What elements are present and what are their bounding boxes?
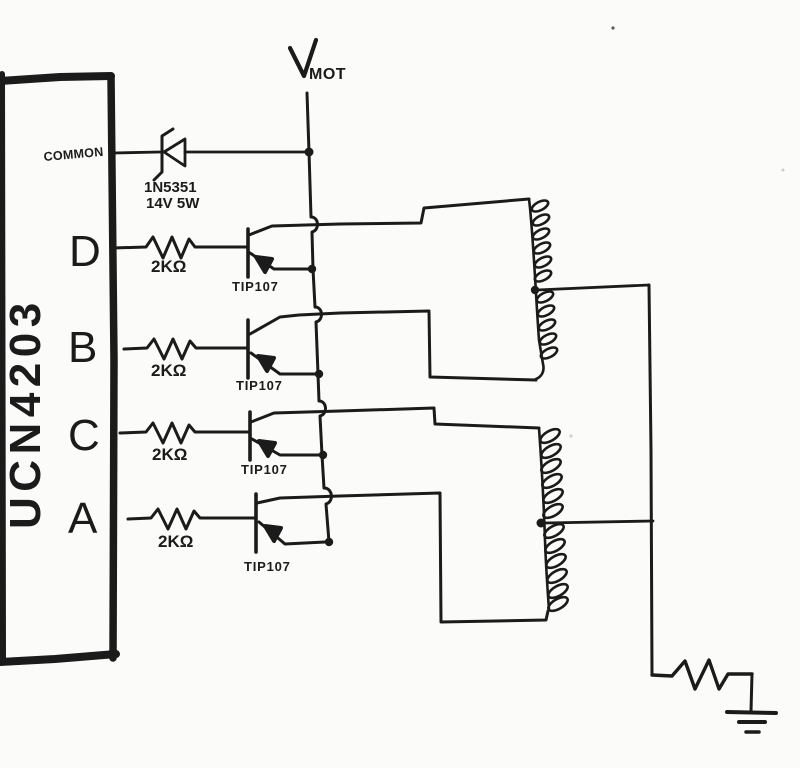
transistor QD TIP107 <box>248 224 340 277</box>
svg-text:TIP107: TIP107 <box>232 279 279 294</box>
inductor L1 loops <box>530 198 559 361</box>
svg-text:D: D <box>69 227 101 276</box>
junction dot emitter QC on rail <box>319 451 327 459</box>
junction dot emitter QB on rail <box>315 370 323 378</box>
transistor QC TIP107 <box>250 411 340 460</box>
transistor QA TIP107 <box>256 494 340 552</box>
svg-text:UCN4203: UCN4203 <box>1 297 50 529</box>
junction dot L2 center tap <box>537 519 546 528</box>
resistor RB 2K and wire from pin B <box>124 339 247 359</box>
wire resistor to ground <box>751 674 752 711</box>
svg-text:2KΩ: 2KΩ <box>158 532 193 551</box>
junction dot emitter QA on rail <box>325 538 333 546</box>
svg-text:C: C <box>68 411 100 460</box>
power label V_MOT <box>290 40 346 83</box>
wire sense line vertical <box>649 285 652 674</box>
wire QC collector to L2 top <box>340 408 539 428</box>
svg-text:1N5351: 1N5351 <box>144 179 197 196</box>
svg-text:2KΩ: 2KΩ <box>151 257 186 276</box>
wire COMMON pin to zener <box>113 152 160 153</box>
svg-text:COMMON: COMMON <box>43 145 104 164</box>
inductor L1 upper motor winding spine <box>529 199 544 379</box>
wire zener to rail <box>185 151 306 154</box>
zener diode D1 1N5351 <box>154 129 185 180</box>
svg-text:14V 5W: 14V 5W <box>146 195 200 212</box>
svg-text:2KΩ: 2KΩ <box>151 361 186 380</box>
wire L2 center tap to sense line <box>545 521 653 523</box>
transistor QB TIP107 <box>248 313 340 378</box>
junction dot emitter QD on rail <box>308 265 316 273</box>
junction dot COMMON/rail <box>305 148 314 157</box>
resistor RC 2K and wire from pin C <box>120 423 249 443</box>
svg-text:TIP107: TIP107 <box>244 559 291 574</box>
inductor L2 lower motor winding spine <box>539 428 549 610</box>
svg-text:B: B <box>68 323 97 372</box>
wire L1 center tap to sense line <box>537 285 649 290</box>
wire QA collector to L2 bottom <box>340 493 548 622</box>
resistor RD 2K and wire from pin D <box>113 237 247 258</box>
svg-text:TIP107: TIP107 <box>241 462 288 477</box>
wire V_MOT rail <box>307 93 331 542</box>
svg-text:MOT: MOT <box>309 66 346 83</box>
svg-text:2KΩ: 2KΩ <box>152 445 187 464</box>
ground symbol <box>727 712 776 732</box>
svg-text:A: A <box>68 494 98 543</box>
IC U1 UCN4203 box <box>0 74 116 662</box>
resistor RA 2K and wire from pin A <box>128 509 255 529</box>
wire QB collector to L1 bottom <box>340 311 536 380</box>
junction dot L1 center tap <box>531 286 539 294</box>
resistor R5 sense <box>652 660 752 689</box>
inductor L2 loops <box>538 426 570 613</box>
svg-text:TIP107: TIP107 <box>236 378 283 393</box>
wire QD collector to L1 top <box>340 199 529 224</box>
